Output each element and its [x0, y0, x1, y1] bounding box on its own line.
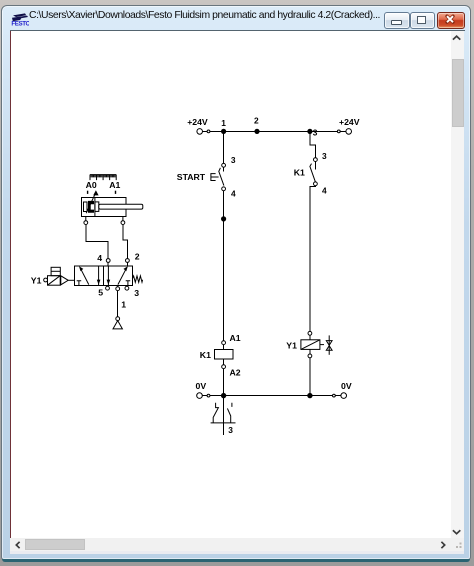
svg-text:2: 2 — [254, 116, 259, 126]
solenoid coil Y1 bottom pin — [308, 354, 312, 358]
valve right cell path 1-2 — [118, 266, 128, 284]
label pin 3 K1 contact — [322, 151, 327, 161]
label pin 3 START — [231, 155, 236, 165]
svg-text:2: 2 — [135, 251, 140, 261]
junction 0V right — [307, 393, 312, 398]
valve right cell blocked port 3 — [126, 281, 131, 286]
svg-text:3: 3 — [231, 155, 236, 165]
terminal +24V left — [197, 129, 210, 135]
pushbutton START pin 4 — [222, 187, 226, 191]
wire valve port4 stub — [107, 262, 109, 266]
svg-text:3: 3 — [322, 151, 327, 161]
svg-text:1: 1 — [221, 118, 226, 128]
pushbutton START contact blade — [219, 168, 224, 186]
valve-link indicator of Y1 — [320, 335, 332, 354]
label Y1 coil — [286, 341, 297, 351]
svg-text:START: START — [177, 172, 206, 182]
label port 5 — [98, 287, 103, 297]
label 0V right — [341, 381, 352, 391]
label START — [177, 172, 206, 182]
valve port 3 connection — [125, 285, 129, 290]
svg-text:3: 3 — [313, 127, 318, 137]
svg-text:Y1: Y1 — [286, 341, 297, 351]
relay coil K1 pin A1 — [222, 341, 226, 345]
pushbutton START pin 3 — [222, 163, 226, 167]
svg-text:A1: A1 — [230, 333, 241, 343]
wire cylinder left port tube — [86, 225, 108, 259]
svg-text:0V: 0V — [341, 381, 352, 391]
solenoid coil Y1 top pin — [308, 331, 312, 335]
wire Y1 coil to 0V rail — [309, 358, 311, 396]
label K1 coil — [200, 350, 211, 360]
relay coil K1 — [215, 350, 233, 360]
wire coil K1 A2 lead — [223, 359, 225, 365]
scrollbar up chevron — [453, 36, 460, 39]
wire K1 contact pin3 stub — [314, 162, 316, 170]
valve left cell blocked port 5 — [77, 281, 82, 286]
valve manual override — [51, 267, 60, 275]
wire +24V top rail — [203, 130, 346, 132]
contact image of relay K1: NC mini symbol — [213, 403, 218, 423]
pushbutton START actuator cap — [211, 174, 219, 181]
maximize button — [410, 12, 435, 29]
scrollbar left chevron — [16, 542, 19, 548]
relay coil K1 pin A2 — [222, 365, 226, 369]
valve pilot triangle — [61, 276, 75, 285]
label Y1 valve — [31, 275, 42, 285]
drawing page left border (dark red) — [10, 31, 11, 538]
cylinder right port — [121, 217, 125, 225]
svg-text:4: 4 — [322, 186, 327, 196]
close button — [437, 12, 465, 29]
valve return spring — [132, 276, 142, 282]
compressed air supply — [113, 317, 122, 329]
label pin 4 K1 contact — [322, 186, 327, 196]
piston position pointer line — [86, 193, 95, 213]
label A0 — [86, 180, 97, 190]
label +24V right — [339, 117, 360, 127]
wire START branch to relay coil — [223, 191, 225, 341]
svg-text:4: 4 — [231, 188, 236, 198]
terminal 0V left — [197, 393, 210, 399]
horizontal scrollbar — [10, 538, 464, 551]
svg-text:+24V: +24V — [339, 117, 360, 127]
svg-text:3: 3 — [228, 425, 233, 435]
label node 1 — [221, 118, 226, 128]
svg-text:Y1: Y1 — [31, 275, 42, 285]
wire A2 to 0V rail — [223, 369, 225, 396]
svg-text:+24V: +24V — [187, 117, 208, 127]
junction mid START branch — [221, 216, 226, 221]
label +24V left — [187, 117, 208, 127]
wire K1 contact pin4 jog down — [310, 186, 316, 332]
junction 0V left — [221, 393, 226, 398]
relay contact K1 pin 4 — [314, 182, 318, 186]
svg-text:5: 5 — [98, 287, 103, 297]
svg-text:A0: A0 — [86, 180, 97, 190]
title bar text — [29, 10, 385, 21]
terminal +24V right — [337, 129, 351, 135]
cylinder A body — [81, 197, 126, 216]
minimize button — [384, 12, 410, 29]
scrollbar right chevron — [441, 542, 444, 548]
valve port 1 connection — [116, 285, 120, 290]
client area top separator — [10, 30, 465, 31]
relay contact K1 pin 3 — [314, 158, 318, 162]
piston position pointer arrow — [93, 190, 98, 195]
title bar icon FluidSIM — [11, 12, 29, 27]
valve V1 5/2-way body — [75, 266, 133, 285]
marker tick at A0 — [87, 191, 89, 194]
cylinder piston seal — [88, 201, 94, 213]
label pin 4 START — [231, 188, 236, 198]
cylinder rear cushion — [84, 202, 88, 212]
svg-text:K1: K1 — [200, 350, 211, 360]
wire 0V bottom rail — [202, 395, 341, 397]
contact image of relay K1: NO mini symbol — [227, 403, 232, 423]
valve solenoid pilot actuator — [44, 276, 61, 286]
wire Y1 coil top lead — [309, 335, 311, 340]
cylinder piston plate — [95, 197, 99, 216]
vertical scrollbar — [451, 31, 464, 538]
wire START branch upper — [223, 131, 225, 163]
cylinder piston rod — [99, 204, 143, 209]
label node 2 — [254, 116, 259, 126]
svg-text:K1: K1 — [294, 167, 305, 177]
cylinder left port — [84, 217, 88, 225]
label node 3 — [313, 127, 318, 137]
svg-text:3: 3 — [134, 288, 139, 298]
svg-text:4: 4 — [97, 253, 102, 263]
valve port 4 pin — [106, 259, 110, 263]
label port 1 — [121, 300, 126, 310]
svg-text:A1: A1 — [109, 180, 120, 190]
svg-text:0V: 0V — [196, 381, 207, 391]
wire contact-image stem under K1 — [223, 396, 225, 435]
wire valve port1 to air supply — [117, 291, 119, 317]
marker tick at A1 — [115, 191, 117, 194]
label A1 — [230, 333, 241, 343]
wire START pin3 stub — [223, 167, 225, 171]
valve left cell path 1-4 — [79, 266, 89, 284]
valve right cell path 4-5 — [107, 266, 111, 285]
node 1 junction — [221, 129, 226, 134]
label port 2 — [135, 251, 140, 261]
node 2 junction — [254, 129, 259, 134]
wire valve port2 stub — [126, 262, 128, 266]
valve port 2 pin — [126, 259, 130, 263]
wire K1-contact branch upper with jog — [310, 131, 316, 157]
terminal 0V right — [333, 393, 347, 399]
label port 4 — [97, 253, 102, 263]
valve port 5 connection — [106, 285, 110, 290]
label A2 — [230, 368, 241, 378]
valve left cell path 2-3 — [97, 266, 101, 285]
label port 3 — [134, 288, 139, 298]
scrollbar down chevron — [453, 530, 460, 533]
wire Y1 coil bottom lead — [309, 349, 311, 354]
label contact number 3 — [228, 425, 233, 435]
relay contact K1 blade — [310, 164, 316, 182]
solenoid coil Y1 — [301, 340, 320, 350]
window bottom dark teal edge — [2, 559, 471, 562]
label 0V left — [196, 381, 207, 391]
node 3 junction — [307, 129, 312, 134]
wire coil K1 A1 lead — [223, 345, 225, 350]
svg-text:A2: A2 — [230, 368, 241, 378]
svg-text:1: 1 — [121, 300, 126, 310]
label K1 contact — [294, 167, 305, 177]
label A1 — [109, 180, 120, 190]
cylinder A ruler scale — [90, 175, 116, 181]
wire cylinder right port tube — [123, 225, 128, 259]
resize grip — [456, 543, 462, 549]
contact image baseline bar — [211, 422, 236, 424]
